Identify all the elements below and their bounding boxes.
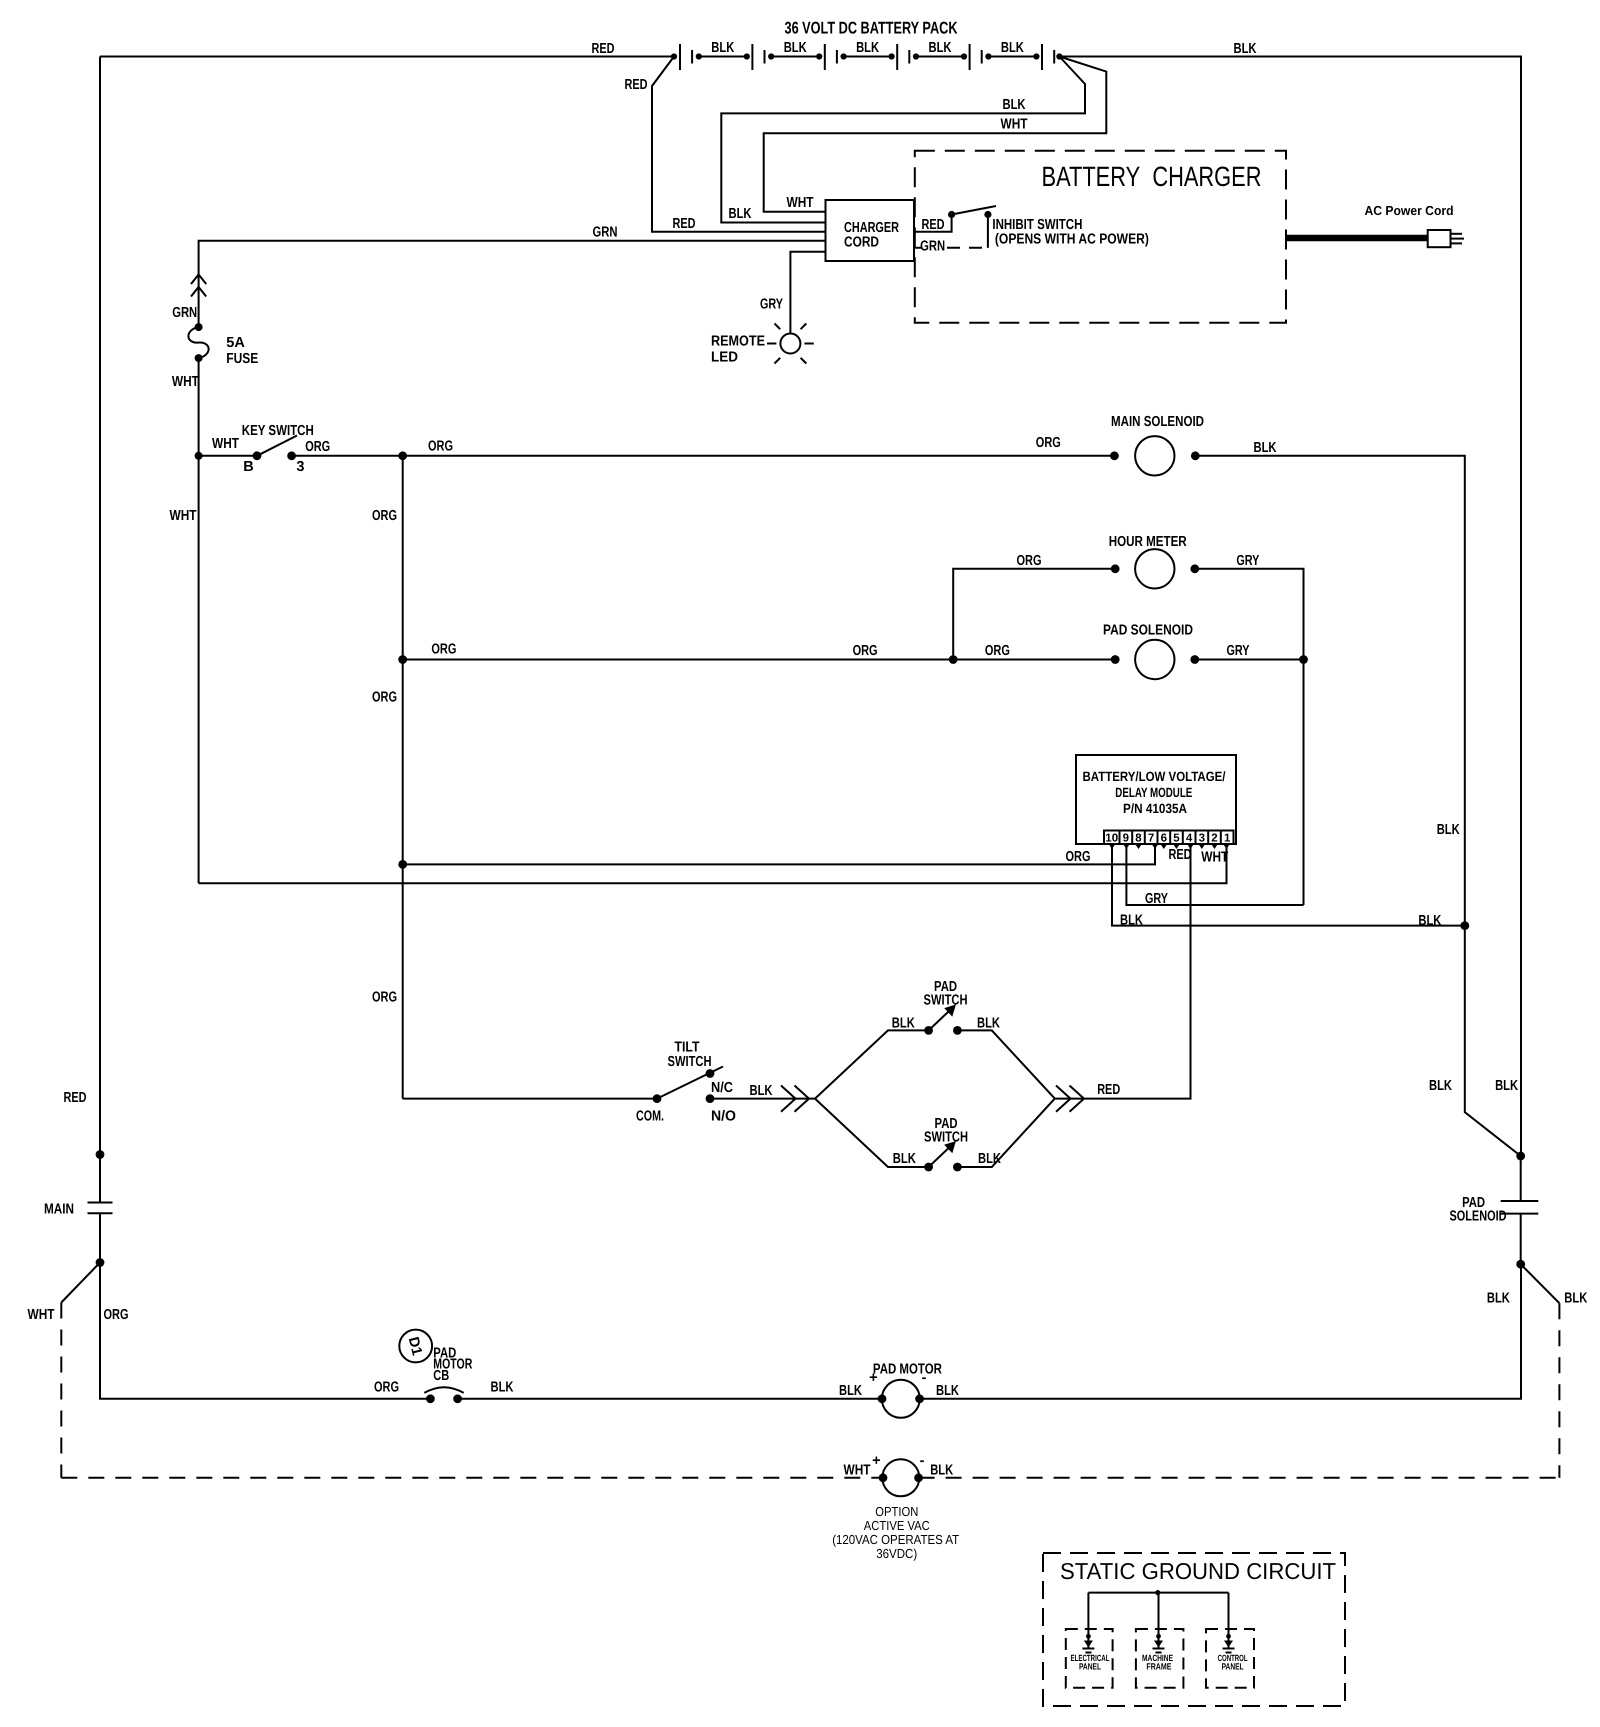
ground bus wire — [1088, 1592, 1228, 1594]
svg-text:BLK: BLK — [929, 40, 952, 56]
wire: BLK main solenoid return — [1195, 456, 1520, 1156]
svg-text:PAD SOLENOID: PAD SOLENOID — [1103, 623, 1193, 639]
node inhibit switch left terminal — [948, 211, 955, 218]
svg-text:BLK: BLK — [1437, 822, 1460, 838]
svg-text:MAIN: MAIN — [44, 1202, 74, 1218]
module pin strip — [1104, 831, 1234, 845]
node — [768, 53, 774, 59]
svg-text:BLK: BLK — [491, 1380, 514, 1396]
wire: pad switch diamond bottom branch — [815, 1099, 1055, 1167]
pin number labels 10-1 — [1105, 833, 1231, 845]
pad motor circuit breaker CB — [424, 1387, 463, 1403]
node pad solenoid right — [1190, 655, 1199, 664]
node — [985, 53, 991, 59]
svg-text:9: 9 — [1123, 833, 1129, 845]
svg-text:-: - — [922, 1370, 927, 1386]
key switch blade — [257, 436, 297, 456]
svg-text:BLK: BLK — [893, 1151, 916, 1167]
svg-text:BLK: BLK — [711, 40, 734, 56]
svg-text:BLK: BLK — [1429, 1078, 1452, 1094]
battery cell 4 plates — [897, 44, 909, 70]
svg-text:BLK: BLK — [729, 206, 752, 222]
battery cell 3 plates — [825, 44, 837, 70]
inhibit switch blade — [952, 206, 996, 215]
wire: cell2-cell3 BLK — [771, 56, 819, 58]
wire: left border RED rail — [99, 57, 101, 1155]
wire: GRY pad solenoid to right bus — [1195, 659, 1304, 661]
AC power cord thick lead — [1286, 235, 1428, 242]
battery cell 2 plates — [752, 44, 764, 70]
double chevron up arrows on GRN drop — [191, 275, 206, 297]
svg-text:6: 6 — [1161, 833, 1167, 845]
svg-text:PANEL: PANEL — [1079, 1662, 1101, 1672]
svg-text:ORG: ORG — [374, 1380, 399, 1396]
node key switch terminal B — [253, 451, 262, 460]
wire: dashed vac return drop — [1558, 1303, 1560, 1478]
svg-text:GRY: GRY — [1227, 643, 1250, 659]
wire: GRY hour meter to right bus — [1195, 569, 1304, 905]
svg-text:RED: RED — [922, 217, 945, 233]
svg-text:N/C: N/C — [711, 1080, 733, 1096]
svg-text:BLK: BLK — [750, 1083, 773, 1099]
node pad contact bottom junction — [1516, 1260, 1525, 1269]
svg-text:AC Power Cord: AC Power Cord — [1365, 203, 1454, 218]
wire: BLK CB to pad motor — [458, 1398, 882, 1400]
remote LED lamp — [767, 324, 814, 364]
svg-text:SWITCH: SWITCH — [924, 1130, 968, 1146]
svg-text:ORG: ORG — [305, 439, 330, 455]
svg-text:GRN: GRN — [920, 239, 945, 255]
svg-text:BLK: BLK — [936, 1383, 959, 1399]
svg-text:BLK: BLK — [856, 40, 879, 56]
chevron arrows at pad switch merge — [1056, 1086, 1084, 1112]
fuse 5A squiggle — [188, 327, 208, 358]
svg-text:REMOTE: REMOTE — [711, 334, 765, 350]
svg-text:RED: RED — [592, 41, 615, 57]
wire: GRY module pin 9 — [1126, 844, 1303, 905]
svg-text:CORD: CORD — [844, 235, 879, 251]
svg-text:BLK: BLK — [1254, 440, 1277, 456]
svg-text:(120VAC OPERATES AT: (120VAC OPERATES AT — [832, 1532, 959, 1547]
svg-text:4: 4 — [1186, 833, 1193, 845]
node key switch terminal 3 — [287, 451, 296, 460]
svg-text:RED: RED — [625, 77, 648, 93]
static ground circuit dashed enclosure — [1043, 1553, 1345, 1706]
svg-text:36VDC): 36VDC) — [876, 1546, 917, 1561]
node — [744, 53, 750, 59]
node: battery negative junction — [1056, 53, 1062, 59]
svg-text:GRN: GRN — [593, 225, 618, 241]
wire: RED module pin 4 down to pad switch output — [1055, 844, 1191, 1099]
svg-text:BLK: BLK — [1003, 97, 1026, 113]
svg-text:WHT: WHT — [170, 508, 197, 524]
svg-text:ACTIVE VAC: ACTIVE VAC — [864, 1518, 930, 1533]
svg-text:WHT: WHT — [844, 1463, 871, 1479]
wire: cell3-cell4 BLK — [844, 56, 892, 58]
node main solenoid left — [1110, 451, 1119, 460]
svg-text:OPTION: OPTION — [875, 1504, 918, 1519]
AC plug prongs — [1451, 234, 1465, 244]
svg-text:BLK: BLK — [892, 1016, 915, 1032]
svg-text:GRY: GRY — [760, 297, 783, 313]
svg-text:ORG: ORG — [1036, 435, 1061, 451]
battery cell 6 plates — [1042, 44, 1054, 70]
wire: ORG to module pin 7 — [403, 844, 1155, 864]
svg-text:WHT: WHT — [172, 374, 199, 390]
wire: ORG vertical distribution rail — [402, 456, 404, 1099]
electrical panel dashed box — [1066, 1629, 1113, 1688]
svg-text:COM.: COM. — [636, 1109, 664, 1125]
wire: dashed vac circuit bottom right — [919, 1477, 1560, 1479]
svg-text:P/N 41035A: P/N 41035A — [1123, 801, 1187, 816]
node — [961, 53, 967, 59]
tilt switch blade — [657, 1067, 723, 1099]
unused pin stubs — [1109, 845, 1230, 850]
svg-text:5: 5 — [1173, 833, 1180, 845]
wire: BLK tilt N/O to pad switch split — [710, 1098, 815, 1100]
svg-text:ORG: ORG — [1017, 553, 1042, 569]
wire: cell5-cell6 BLK — [988, 56, 1036, 58]
wire: into main contact — [99, 1155, 101, 1203]
wire: GRN dashed stub — [915, 247, 988, 249]
wire: WHT from fuse to key switch junction — [198, 358, 200, 456]
svg-text:WHT: WHT — [1001, 117, 1028, 133]
node ORG distribution junction — [398, 451, 407, 460]
svg-text:PAD MOTOR: PAD MOTOR — [873, 1362, 942, 1378]
wire: BLK battery negative to right border, down right side — [1059, 57, 1521, 1157]
svg-text:WHT: WHT — [787, 195, 814, 211]
svg-text:GRY: GRY — [1236, 553, 1259, 569]
wire: GRY lead down to remote LED — [790, 252, 825, 334]
node pad switch bottom left — [924, 1163, 933, 1172]
svg-text:BLK: BLK — [1564, 1291, 1587, 1307]
option active vac motor — [879, 1459, 923, 1496]
svg-text:BLK: BLK — [1234, 41, 1257, 57]
svg-text:RED: RED — [1169, 847, 1192, 863]
control panel dashed box — [1206, 1629, 1254, 1688]
svg-text:MAIN SOLENOID: MAIN SOLENOID — [1111, 414, 1204, 430]
svg-text:SWITCH: SWITCH — [924, 993, 968, 1009]
wire: inhibit switch to GRN lead — [987, 218, 989, 248]
svg-text:BATTERY CHARGER: BATTERY CHARGER — [1042, 161, 1262, 192]
svg-text:WHT: WHT — [212, 436, 239, 452]
pad solenoid coil — [1135, 640, 1174, 679]
svg-text:RED: RED — [64, 1090, 87, 1106]
node main contact bottom junction — [96, 1258, 105, 1267]
battery/low voltage delay module U1 — [1076, 755, 1236, 844]
AC plug body — [1428, 230, 1451, 247]
svg-text:BLK: BLK — [1120, 913, 1143, 929]
svg-text:-: - — [920, 1453, 925, 1469]
svg-text:WHT: WHT — [28, 1307, 55, 1323]
svg-text:BLK: BLK — [1001, 40, 1024, 56]
hour meter — [1135, 549, 1174, 588]
wire: cell4-cell5 BLK — [916, 56, 964, 58]
node hour meter right — [1190, 564, 1199, 573]
node inhibit switch right terminal — [984, 211, 991, 218]
svg-text:ORG: ORG — [372, 690, 397, 706]
wire: ORG down to pad motor circuit — [100, 1263, 430, 1399]
svg-text:RED: RED — [1097, 1082, 1120, 1098]
svg-text:BLK: BLK — [930, 1463, 953, 1479]
svg-text:(OPENS WITH AC POWER): (OPENS WITH AC POWER) — [995, 232, 1149, 248]
svg-text:ORG: ORG — [428, 439, 453, 455]
svg-text:HOUR METER: HOUR METER — [1109, 534, 1187, 550]
ground drop electrical panel — [1082, 1593, 1094, 1653]
svg-text:LED: LED — [711, 350, 738, 366]
svg-text:ORG: ORG — [372, 990, 397, 1006]
svg-text:8: 8 — [1135, 833, 1142, 845]
svg-text:ORG: ORG — [104, 1307, 129, 1323]
node main solenoid right — [1191, 451, 1200, 460]
svg-text:GRY: GRY — [1145, 891, 1168, 907]
main contact bars — [88, 1203, 113, 1214]
node: battery positive junction — [671, 53, 677, 59]
svg-text:N/O: N/O — [711, 1109, 736, 1125]
svg-text:5A: 5A — [226, 335, 245, 351]
wire: GRN from fuse corner to charger — [199, 241, 826, 327]
svg-text:3: 3 — [296, 459, 304, 475]
wire: cell1-cell2 BLK — [699, 56, 747, 58]
machine frame dashed box — [1136, 1629, 1184, 1688]
circled D1 designator — [399, 1330, 432, 1363]
svg-text:BLK: BLK — [978, 1151, 1001, 1167]
svg-text:ORG: ORG — [853, 643, 878, 659]
svg-text:PANEL: PANEL — [1222, 1662, 1244, 1672]
node pad solenoid left — [1111, 655, 1120, 664]
label OPTION ACTIVE VAC — [832, 1504, 959, 1561]
wire: BLK module pin 10 — [1112, 844, 1465, 926]
wire: WHT rail down left inner column — [198, 456, 200, 884]
node ground bus center — [1155, 1590, 1160, 1595]
svg-text:DELAY MODULE: DELAY MODULE — [1115, 785, 1192, 800]
svg-text:GRN: GRN — [172, 305, 197, 321]
wire: ORG key switch to main solenoid — [292, 455, 1115, 457]
node fuse bottom — [195, 354, 203, 362]
svg-text:ORG: ORG — [1066, 849, 1091, 865]
battery charger dashed enclosure — [915, 151, 1286, 323]
node — [1033, 53, 1039, 59]
wire: RED stub to inhibit switch — [915, 218, 952, 232]
wire: main contact to bottom junction — [99, 1213, 101, 1262]
wire: ORG hour meter branch — [953, 569, 1115, 660]
wire: diagonal to dashed WHT vac feed — [61, 1263, 100, 1303]
node ORG rail lower tap — [398, 860, 407, 869]
wire: dashed WHT vac feed drop — [60, 1303, 62, 1478]
svg-text:BLK: BLK — [784, 40, 807, 56]
pad switch bottom blade with arrow — [929, 1141, 956, 1167]
node key switch feed junction — [195, 452, 203, 460]
svg-text:3: 3 — [1199, 833, 1205, 845]
battery cell 5 plates — [970, 44, 982, 70]
wire: BLK pad motor return to right border — [920, 1264, 1521, 1399]
node hour meter left — [1111, 564, 1120, 573]
wire: ORG to tilt switch COM — [403, 1098, 657, 1100]
node — [913, 53, 919, 59]
node pad row tap — [398, 655, 407, 664]
svg-text:RED: RED — [673, 216, 696, 232]
svg-text:SWITCH: SWITCH — [668, 1054, 712, 1070]
svg-text:BLK: BLK — [977, 1016, 1000, 1032]
wire: dashed vac circuit bottom left — [61, 1477, 883, 1479]
wire: WHT tap from battery negative to charger — [764, 57, 1107, 212]
svg-text:ORG: ORG — [372, 508, 397, 524]
node — [841, 53, 847, 59]
node fuse top — [195, 323, 203, 331]
svg-text:WHT: WHT — [1201, 850, 1228, 866]
wire: WHT to key switch terminal B — [199, 455, 257, 457]
wire: contact to bottom junction — [1520, 1214, 1522, 1265]
svg-text:STATIC GROUND CIRCUIT: STATIC GROUND CIRCUIT — [1060, 1558, 1336, 1584]
svg-text:36 VOLT DC BATTERY PACK: 36 VOLT DC BATTERY PACK — [785, 19, 959, 38]
svg-text:ORG: ORG — [985, 643, 1010, 659]
svg-text:7: 7 — [1148, 833, 1154, 845]
svg-text:BLK: BLK — [1487, 1291, 1510, 1307]
wire: WHT return to module pin 1 — [199, 844, 1227, 883]
main solenoid coil — [1135, 436, 1174, 475]
wire: top feed RED from left border to battery pack — [100, 56, 674, 58]
ground drop machine frame — [1153, 1593, 1165, 1653]
chevron arrows on tilt output — [781, 1086, 809, 1112]
pad motor — [878, 1380, 924, 1418]
wire: down to pad solenoid contact — [1520, 1156, 1522, 1201]
wire: pad switch diamond top branch — [815, 1030, 1055, 1098]
svg-text:10: 10 — [1105, 833, 1118, 845]
node — [816, 53, 822, 59]
svg-text:1: 1 — [1224, 833, 1231, 845]
wire: diagonal tap to charger RED lead — [652, 57, 826, 232]
svg-text:+: + — [869, 1370, 877, 1386]
svg-text:BLK: BLK — [1418, 913, 1441, 929]
node hour meter branch junction — [949, 655, 958, 664]
svg-text:KEY SWITCH: KEY SWITCH — [242, 423, 314, 439]
node GRY bus junction — [1299, 655, 1308, 664]
charger cord box — [826, 200, 915, 261]
node pad contact top junction — [1516, 1152, 1525, 1161]
svg-text:2: 2 — [1211, 833, 1217, 845]
svg-text:ORG: ORG — [431, 642, 456, 658]
svg-text:FRAME: FRAME — [1146, 1662, 1171, 1672]
node pad switch top left — [924, 1026, 933, 1035]
node pad switch bottom right — [953, 1163, 962, 1172]
wire: solid diagonal to dashed vac return — [1521, 1264, 1560, 1303]
svg-text:SOLENOID: SOLENOID — [1450, 1209, 1507, 1225]
node — [889, 53, 895, 59]
wire: ORG pad solenoid row — [403, 659, 1115, 661]
ground drop control panel — [1223, 1593, 1235, 1653]
svg-text:+: + — [872, 1453, 880, 1469]
svg-text:BLK: BLK — [839, 1383, 862, 1399]
svg-text:B: B — [243, 459, 253, 475]
node main contact top — [96, 1150, 105, 1159]
node pad switch top right — [953, 1026, 962, 1035]
node BLK junction on solenoid return — [1460, 921, 1469, 930]
svg-text:CB: CB — [433, 1368, 449, 1384]
node tilt switch COM — [653, 1094, 662, 1103]
svg-text:BATTERY/LOW VOLTAGE/: BATTERY/LOW VOLTAGE/ — [1083, 769, 1226, 784]
pad switch top blade with arrow — [929, 1005, 956, 1031]
node tilt switch N/C — [706, 1069, 715, 1078]
svg-text:BLK: BLK — [1495, 1078, 1518, 1094]
wire: BLK tap from battery negative to charger — [721, 57, 1085, 223]
svg-text:FUSE: FUSE — [226, 351, 258, 367]
node battery cell 1 terminal — [696, 53, 702, 59]
battery cell 1 plates — [680, 44, 692, 70]
pad solenoid contact bars — [1501, 1201, 1539, 1214]
node tilt switch N/O — [706, 1094, 715, 1103]
